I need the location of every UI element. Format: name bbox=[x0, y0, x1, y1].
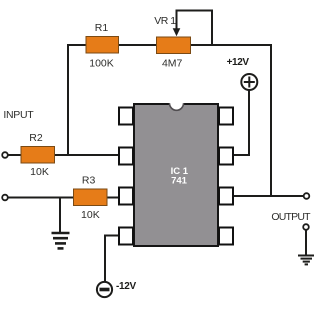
ground below input 2 junction bbox=[52, 233, 70, 248]
+12V supply symbol bbox=[241, 74, 257, 90]
label 10K R3 bbox=[81, 209, 100, 221]
wire R2 to IC pin 2 with feedback junction bbox=[54, 154, 119, 156]
label -12V bbox=[116, 281, 137, 292]
wire +12V supply down to IC pin 7 stub bbox=[234, 91, 249, 156]
label 10K R2 bbox=[30, 166, 49, 178]
wire input terminal to R2 bbox=[8, 154, 22, 156]
input terminal 1 bbox=[2, 152, 8, 158]
svg-text:OUTPUT: OUTPUT bbox=[271, 211, 311, 223]
label INPUT bbox=[3, 109, 34, 121]
resistor R2 bbox=[21, 147, 55, 164]
wire ground tap below input 2 bbox=[59, 198, 61, 234]
label +12V bbox=[227, 57, 250, 68]
input terminal 2 bbox=[2, 195, 8, 201]
svg-text:VR 1: VR 1 bbox=[154, 15, 176, 27]
IC pin 4 left bbox=[119, 228, 133, 245]
svg-text:10K: 10K bbox=[81, 209, 100, 221]
svg-text:R2: R2 bbox=[29, 132, 43, 144]
svg-text:741: 741 bbox=[171, 176, 188, 187]
svg-text:100K: 100K bbox=[89, 58, 114, 70]
output terminal 2 bbox=[303, 224, 309, 230]
wire R3 to IC pin 3 bbox=[106, 197, 119, 199]
wire input terminal 2 to R3 bbox=[8, 197, 74, 199]
op-amp IC U1 body bbox=[134, 104, 218, 246]
svg-text:R1: R1 bbox=[95, 22, 109, 34]
output terminal 1 bbox=[304, 193, 310, 199]
resistor R3 bbox=[74, 189, 108, 206]
label OUTPUT bbox=[271, 211, 311, 223]
wire VR1 right terminal to right rail bbox=[190, 44, 272, 46]
label 4M7 bbox=[162, 58, 183, 70]
svg-text:-12V: -12V bbox=[116, 281, 137, 292]
wire right rail down to output node bbox=[270, 44, 272, 196]
wire VR1 wiper loop bbox=[177, 11, 213, 46]
svg-text:4M7: 4M7 bbox=[162, 58, 183, 70]
svg-text:R3: R3 bbox=[82, 175, 96, 187]
svg-text:+12V: +12V bbox=[227, 57, 250, 68]
label R3 bbox=[82, 175, 96, 187]
IC pin 5 right bbox=[219, 228, 233, 245]
IC pin 8 right bbox=[219, 108, 233, 125]
wire -12V supply to IC pin 4 bbox=[105, 236, 118, 282]
svg-text:INPUT: INPUT bbox=[3, 109, 34, 121]
VR1 wiper arrow bbox=[173, 28, 181, 36]
label R1 bbox=[95, 22, 109, 34]
IC pin 6 right bbox=[219, 188, 233, 205]
label 741 bbox=[171, 176, 188, 187]
wire feedback vertical from R1 to inverting input junction bbox=[68, 45, 86, 155]
resistor R1 bbox=[86, 37, 119, 54]
label IC 1 bbox=[171, 166, 189, 177]
label R2 bbox=[29, 132, 43, 144]
IC pin 1 left bbox=[119, 108, 133, 125]
label 100K bbox=[89, 58, 114, 70]
IC pin 2 left bbox=[119, 148, 133, 165]
ground below output terminal 2 bbox=[298, 256, 314, 265]
wire IC output pin to output terminal bbox=[234, 195, 304, 197]
-12V supply symbol bbox=[97, 282, 112, 297]
svg-text:10K: 10K bbox=[30, 166, 49, 178]
label VR 1 bbox=[154, 15, 176, 27]
potentiometer VR1 bbox=[157, 37, 191, 54]
wire R1 to VR1 bbox=[118, 44, 157, 46]
wire output ground terminal drop bbox=[305, 230, 307, 256]
IC pin 7 right bbox=[219, 148, 233, 165]
IC pin 3 left bbox=[119, 188, 133, 205]
IC notch bbox=[170, 96, 184, 110]
